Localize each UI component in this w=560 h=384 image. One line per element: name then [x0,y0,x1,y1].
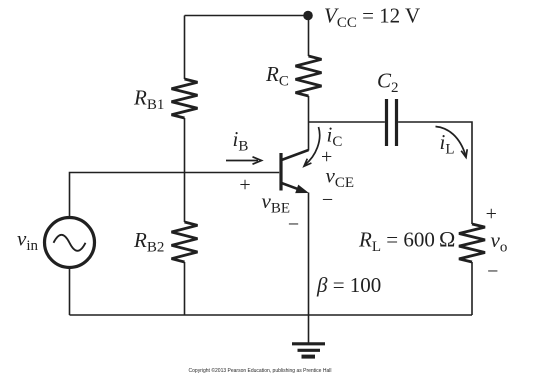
capacitor C2 plates [387,99,397,146]
svg-text:−: − [322,189,333,211]
svg-text:VCC = 12 V: VCC = 12 V [324,4,420,32]
resistor RC [296,56,322,96]
svg-text:−: − [487,261,498,283]
wire RL to bottom rail [471,262,473,315]
transistor Q1 collector diagonal [282,150,309,160]
wire divider middle [184,118,186,222]
resistor RL [459,224,485,262]
node VCC junction dot [303,11,313,21]
resistor RB1 [172,79,198,118]
wire left divider column upper [184,16,186,80]
wire C2 to right corner down to RL [398,122,472,224]
svg-text:β = 100: β = 100 [316,273,381,297]
wire bottom rail [70,314,473,316]
svg-text:RL = 600Ω: RL = 600Ω [358,227,455,256]
transistor Q1 emitter arrowhead [296,185,308,192]
wire VCC to RC [308,16,310,57]
wire top rail VCC [185,15,309,17]
svg-text:RC: RC [265,62,289,90]
svg-text:vBE: vBE [262,189,291,217]
svg-text:−: − [288,214,299,236]
transistor Q1 base bar [279,153,282,191]
svg-text:RB2: RB2 [133,228,164,256]
arrow iC curved [304,127,320,166]
svg-text:C2: C2 [377,69,399,97]
resistor RB2 [172,222,198,262]
source vin sine [54,235,86,251]
svg-text:RB1: RB1 [133,86,164,114]
wire collector node to C2 [309,121,385,123]
source vin circle [45,218,95,268]
svg-text:+: + [486,203,497,225]
wire vin top to base [70,173,280,218]
arrow iL curved [436,127,468,158]
wire emitter down to ground [308,193,310,344]
wire divider bottom [184,262,186,315]
svg-text:vin: vin [17,227,38,255]
transistor Q1 emitter diagonal [282,183,301,190]
svg-text:vo: vo [491,228,508,256]
ground [292,344,325,357]
svg-text:+: + [321,146,332,168]
svg-text:Copyright ©2013 Pearson Educat: Copyright ©2013 Pearson Education, publi… [189,367,332,374]
wire RC to collector node [308,96,310,151]
svg-text:+: + [239,174,250,196]
arrow iB [226,157,262,164]
svg-text:iB: iB [233,127,249,155]
wire vin bottom [69,268,71,315]
